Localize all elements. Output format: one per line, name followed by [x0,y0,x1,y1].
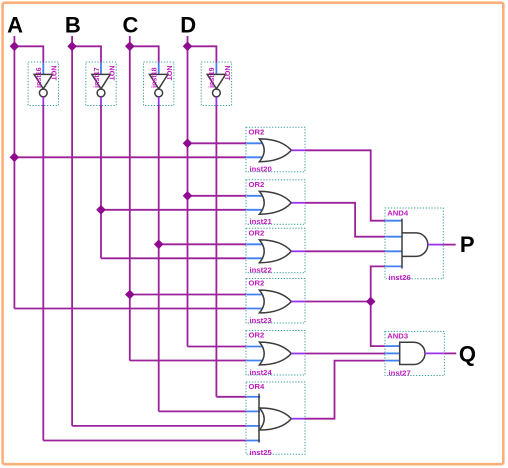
wire net NOT-B to inst22 input 2 [101,257,246,259]
AND3 gate inst27 input pin stubs [385,345,399,347]
AND3 gate inst27 dotted box [385,331,444,375]
OR2 gate inst22 input pin stubs [246,243,262,245]
junction net NOT-B at inst21 feed [96,205,106,215]
svg-text:D: D [180,12,196,37]
wire net C branch to NOT inst18 [130,46,159,62]
svg-text:inst16: inst16 [35,67,43,88]
OR2 gate inst24 body [259,342,291,365]
AND4 gate inst26 dotted box [385,208,443,279]
wire net A branch to NOT inst16 [14,46,43,62]
OR2 gate inst20 body [259,139,291,162]
AND3 gate inst27 body [400,342,425,364]
NOT gate inst16 input pin stub [42,62,44,74]
svg-text:AND3: AND3 [387,332,408,341]
wire net NOT-C output vertical [158,106,160,412]
wire net C vertical [129,36,131,361]
svg-text:C: C [123,12,139,37]
NOT gate inst17 triangle [92,74,110,88]
OR2 gate inst22 dotted box [246,228,305,272]
wire inst21 output to AND4 input 2 [305,203,385,237]
junction net D at inst20 feed [183,139,193,149]
NOT gate inst17 dotted box [86,62,116,106]
OR2 gate inst20 input pin stubs [246,142,262,144]
svg-text:Q: Q [459,341,476,366]
OR2 gate inst24 input pin stubs [246,346,262,348]
OR2 gate inst22 body [259,240,291,263]
OR2 gate inst20 output pin stub [291,149,305,151]
junction net D at branch [183,42,193,52]
svg-text:OR2: OR2 [249,279,265,288]
OR2 gate inst24 dotted box [246,331,305,376]
svg-text:A: A [7,12,23,37]
NOT gate inst19 dotted box [201,62,231,106]
svg-text:OR2: OR2 [249,229,265,238]
OR2 gate inst22 output pin stub [291,250,305,252]
NOT gate inst16 dotted box [28,62,58,106]
NOT gate inst16 bubble [39,89,47,97]
svg-text:inst20: inst20 [250,165,272,174]
wire inst20 output to AND4 input 1 [305,150,385,220]
wire net B vertical [71,36,73,426]
OR2 gate inst23 body [259,290,291,313]
svg-text:inst22: inst22 [250,266,272,275]
junction net C at inst23 feed [125,290,135,300]
junction net NOT-C at inst22 feed [154,240,164,250]
OR2 gate inst21 output pin stub [291,202,305,204]
svg-text:NOT: NOT [107,66,115,82]
OR2 gate inst21 input pin stubs [246,195,262,197]
wire net NOT-A output vertical [42,106,44,441]
OR4 gate inst25 body [259,408,291,430]
svg-text:NOT: NOT [223,66,231,82]
wire net C to inst23 input 1 [130,294,246,296]
NOT gate inst18 triangle [150,74,168,88]
AND4 gate inst26 input pin stubs [385,220,402,222]
svg-text:inst17: inst17 [93,67,101,88]
junction net C at branch [125,42,135,52]
OR2 gate inst21 body [259,191,291,214]
AND3 gate inst27 output pin stub [425,352,445,354]
svg-text:inst24: inst24 [250,368,273,377]
AND4 gate inst26 input stem [401,219,403,269]
svg-text:OR2: OR2 [249,180,265,189]
svg-text:P: P [460,232,475,257]
svg-text:inst18: inst18 [151,67,159,88]
junction net inst23 output [366,297,376,307]
wire inst23 junction down to AND3 input 1 [371,302,385,347]
OR2 gate inst23 dotted box [246,279,305,324]
wire net D to inst21 input 1 [188,195,247,197]
NOT gate inst16 output pin stub [42,97,44,106]
wire net A to inst20 input 2 [14,156,246,158]
wire inst25 output to AND3 input 3 [305,361,385,419]
wire net B to OR4 input 3 [72,425,246,427]
NOT gate inst16 triangle [34,74,52,88]
wire net NOT-C to OR4 input 2 [159,410,246,412]
OR2 gate inst21 dotted box [246,180,305,225]
wire net NOT-A to OR4 input 4 [43,440,246,442]
NOT gate inst19 bubble [213,89,221,97]
svg-text:B: B [65,12,81,37]
NOT gate inst17 output pin stub [100,97,102,106]
OR2 gate inst23 input pin stubs [246,294,262,296]
wire net D to inst24 input 1 [188,346,247,348]
svg-text:OR2: OR2 [249,128,265,137]
OR2 gate inst20 dotted box [246,127,305,172]
junction net A at inst20 feed [10,153,20,163]
svg-text:NOT: NOT [165,66,173,82]
wire net A vertical [13,36,15,309]
NOT gate inst18 input pin stub [158,62,160,74]
wire net D vertical [187,36,189,347]
wire net A to inst23 input 2 [14,308,246,310]
wire net NOT-C to inst22 input 1 [159,243,246,245]
junction net D at inst21 feed [183,191,193,201]
junction net A at branch [10,42,20,52]
OR2 gate inst24 output pin stub [291,353,305,355]
AND4 gate inst26 output pin stub [428,244,444,246]
OR4 gate inst25 dotted box [246,382,305,454]
junction net B at branch [67,42,77,52]
wire inst22 output to AND4 input 3 [305,250,385,252]
wire net NOT-D to OR4 input 1 [216,396,246,398]
OR4 gate inst25 input stem [258,394,260,443]
NOT gate inst17 bubble [97,89,105,97]
wire inst23 junction up to AND4 input 4 [371,266,385,301]
svg-text:OR2: OR2 [249,331,265,340]
svg-text:AND4: AND4 [387,208,409,217]
wire inst23 output to junction [305,301,371,303]
NOT gate inst18 bubble [155,89,163,97]
NOT gate inst19 output pin stub [215,97,217,106]
svg-text:inst27: inst27 [389,369,411,378]
wire net C to inst24 input 2 [130,360,246,362]
wire inst24 output to AND3 input 2 [305,353,385,355]
NOT gate inst18 output pin stub [158,97,160,106]
NOT gate inst18 dotted box [144,62,174,106]
OR4 gate inst25 output pin stub [291,418,305,420]
wire net D to inst20 input 1 [188,142,247,144]
wire AND4 output to P [443,244,455,246]
svg-text:inst25: inst25 [250,448,273,457]
svg-text:inst21: inst21 [250,217,273,226]
wire net D branch to NOT inst19 [188,46,217,62]
svg-text:inst26: inst26 [389,273,411,282]
NOT gate inst17 input pin stub [100,62,102,74]
svg-text:OR4: OR4 [249,382,266,391]
NOT gate inst19 triangle [207,74,225,88]
wire net NOT-D output vertical [215,106,217,397]
svg-text:inst19: inst19 [208,67,216,88]
OR2 gate inst23 output pin stub [291,301,305,303]
wire net B branch to NOT inst17 [72,46,101,62]
wire net NOT-B to inst21 input 2 [101,209,246,211]
OR4 gate inst25 input pin stubs [246,396,260,398]
AND4 gate inst26 body [402,233,428,257]
wire AND3 output to Q [444,352,456,354]
wire net NOT-B output vertical [100,106,102,259]
svg-text:NOT: NOT [50,66,58,82]
svg-text:inst23: inst23 [250,316,272,325]
NOT gate inst19 input pin stub [215,62,217,74]
